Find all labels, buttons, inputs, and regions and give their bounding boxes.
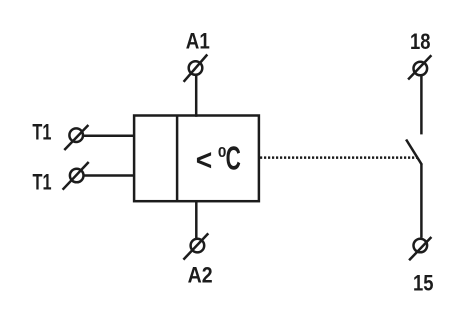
svg-text:<: < [196, 144, 213, 177]
actuation dotted link [260, 156, 417, 159]
svg-text:A1: A1 [186, 29, 210, 54]
contact blade (NO contact 15-18) [406, 140, 422, 165]
terminal T1 upper [64, 125, 88, 150]
svg-text:18: 18 [410, 29, 431, 54]
svg-text:T1: T1 [32, 119, 51, 144]
relay body U1 [134, 116, 259, 202]
terminal 15 [409, 237, 431, 260]
svg-text:15: 15 [413, 271, 434, 296]
wire contact to terminal 15 [420, 164, 423, 237]
svg-text:C: C [226, 140, 241, 177]
wire A1 to relay box [195, 76, 198, 117]
terminal A1 [184, 55, 208, 82]
relay body divider [176, 116, 179, 202]
wire T1 upper to relay box [84, 135, 134, 138]
svg-text:T1: T1 [33, 170, 52, 195]
terminal T1 lower [63, 162, 89, 190]
terminal 18 [408, 55, 431, 79]
terminal A2 [183, 233, 208, 259]
svg-text:A2: A2 [188, 263, 213, 288]
wire T1 lower to relay box [84, 174, 134, 177]
wire relay box to A2 [195, 200, 198, 238]
wire terminal 18 to contact [420, 76, 423, 134]
